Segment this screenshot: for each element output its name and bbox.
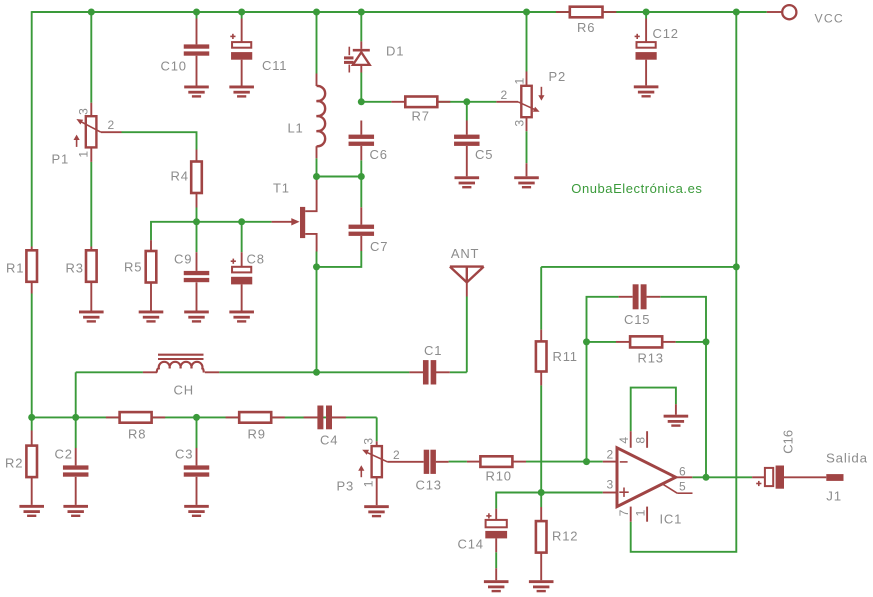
resistor R8	[106, 416, 120, 418]
inductor CH with core	[143, 371, 157, 373]
wire right rail	[631, 12, 737, 552]
svg-text:R8: R8	[128, 426, 146, 441]
capacitor C4	[285, 416, 304, 418]
svg-text:1: 1	[77, 151, 91, 158]
svg-text:ANT: ANT	[451, 246, 479, 261]
svg-text:5: 5	[679, 480, 686, 494]
wire R1 bottom to bus	[31, 294, 33, 418]
svg-text:R1: R1	[6, 261, 24, 276]
wire R4 bottom to gate row to C9	[196, 208, 198, 253]
node rail-C10	[193, 9, 200, 16]
svg-text:R13: R13	[638, 351, 664, 366]
capacitor C14 (polarized)	[495, 509, 497, 520]
wire CH left corner drop	[75, 372, 77, 417]
capacitor C6	[360, 121, 362, 135]
wire P1 pin1 to R3	[90, 162, 92, 247]
IC1 pin 7	[630, 507, 632, 522]
ground R3	[79, 311, 104, 314]
resistor R13	[616, 341, 630, 343]
svg-text:1: 1	[513, 78, 527, 85]
wire P1 pin2 to R4	[122, 132, 197, 149]
resistor R7	[391, 101, 405, 103]
svg-text:3: 3	[513, 119, 527, 126]
wire C6 bottom	[360, 160, 362, 176]
svg-text:P2: P2	[549, 69, 567, 84]
op-amp IC1	[617, 448, 676, 507]
P1 wiper	[78, 120, 101, 132]
P3 wiper	[364, 451, 387, 462]
resistor R11	[540, 330, 542, 342]
svg-text:J1: J1	[826, 488, 842, 503]
wire feedback row to right rail	[541, 266, 736, 268]
inductor L1	[316, 74, 318, 87]
svg-text:CH: CH	[174, 382, 194, 397]
node C15-R13 left	[583, 338, 590, 345]
ground C9	[184, 311, 209, 314]
svg-text:3: 3	[76, 108, 90, 115]
wire C15/R13 left leg down to pin2 node	[586, 342, 588, 462]
ground C14	[484, 580, 509, 583]
node rail-P1	[88, 9, 95, 16]
wire output to C16	[692, 476, 752, 478]
ground P3	[364, 505, 389, 508]
wire bottom bus	[32, 416, 377, 418]
wire C12 stub	[645, 12, 647, 19]
wire pin3 node to C14	[496, 493, 541, 509]
capacitor C3	[196, 448, 198, 465]
resistor R3	[90, 247, 92, 251]
svg-text:R7: R7	[412, 109, 430, 124]
node rail-right	[733, 9, 740, 16]
wire P1 pin3 drop	[90, 12, 92, 103]
varicap diode D1	[360, 41, 362, 49]
node R7-C5-P2	[463, 98, 470, 105]
node R1-R2-bus	[28, 414, 35, 421]
P2 wiper	[496, 101, 518, 103]
wire P2 pin1 drop	[526, 12, 528, 72]
wire node to R7	[361, 101, 391, 103]
node D1-R7-C6	[358, 98, 365, 105]
ground C3	[184, 505, 209, 508]
svg-text:R3: R3	[66, 261, 84, 276]
svg-text:C5: C5	[475, 147, 493, 162]
svg-text:VCC: VCC	[815, 12, 844, 26]
svg-text:R4: R4	[171, 169, 189, 184]
wire L1 bottom	[316, 158, 318, 176]
svg-text:R9: R9	[248, 426, 266, 441]
svg-text:C4: C4	[320, 433, 338, 448]
svg-text:R12: R12	[552, 529, 578, 544]
svg-text:C7: C7	[370, 239, 388, 254]
wire R13 row right	[676, 341, 706, 343]
svg-text:2: 2	[108, 118, 115, 132]
svg-text:3: 3	[607, 477, 614, 491]
wire C5 stub	[466, 102, 468, 121]
resistor R4	[196, 150, 198, 162]
capacitor C13	[424, 450, 430, 474]
resistor R1	[31, 247, 33, 251]
node emitter-CH-C1	[313, 369, 320, 376]
T1 gate lead	[272, 221, 292, 223]
IC1 pin 2 (inverting)	[603, 461, 617, 463]
node T1-C7	[313, 263, 320, 270]
svg-text:C1: C1	[424, 343, 442, 358]
wire C13 to R10	[449, 461, 467, 463]
wire L1-C6 row	[317, 176, 362, 178]
P1 adjust arrow	[76, 140, 78, 147]
wire R7 to C5 node	[437, 101, 467, 103]
node C6-C7	[358, 173, 365, 180]
svg-text:1: 1	[634, 509, 648, 516]
ground C5	[455, 176, 480, 179]
svg-text:C6: C6	[370, 147, 388, 162]
ground C2	[63, 505, 88, 508]
capacitor C10	[196, 19, 198, 45]
terminal VCC	[767, 11, 782, 13]
P3 pin1 to ground	[376, 477, 378, 505]
wire VCC top rail	[32, 11, 767, 13]
wire left rail down to R1	[31, 11, 33, 246]
svg-text:D1: D1	[386, 44, 404, 59]
T1 drain lead	[305, 177, 316, 212]
resistor R5	[150, 240, 152, 251]
svg-text:C10: C10	[161, 59, 187, 74]
svg-text:R11: R11	[553, 349, 578, 364]
IC1 pin 3 (non-inverting)	[603, 492, 617, 494]
svg-text:P1: P1	[52, 152, 70, 167]
svg-text:R6: R6	[577, 20, 595, 35]
capacitor C11 (polarized)	[241, 19, 243, 43]
capacitor C8 (polarized)	[241, 252, 243, 267]
potentiometer P1	[90, 103, 92, 117]
node rail-feedback	[733, 263, 740, 270]
svg-text:R10: R10	[486, 469, 512, 484]
wire D1 top drop	[360, 12, 362, 41]
P3 adjust arrow	[360, 471, 362, 478]
D1 capacitor mark	[348, 47, 350, 56]
resistor R2	[31, 431, 33, 446]
wire D1 anode to node	[360, 73, 362, 102]
wire R13 right leg to output	[705, 342, 707, 477]
capacitor C16 (polarized, series)	[752, 476, 765, 478]
capacitor C15	[619, 296, 633, 298]
node output	[703, 474, 710, 481]
wire C14 mid segment	[495, 552, 497, 568]
node C3-bus	[193, 414, 200, 421]
svg-text:4: 4	[617, 437, 631, 444]
capacitor C7	[360, 207, 362, 224]
IC1 pin 1	[646, 507, 648, 522]
wire R11 top drop	[540, 267, 542, 330]
svg-text:OnubaElectrónica.es: OnubaElectrónica.es	[571, 181, 702, 196]
node C15-R13 right	[703, 338, 710, 345]
svg-text:2: 2	[607, 447, 614, 461]
svg-text:R2: R2	[5, 456, 23, 471]
node R4-C9	[193, 218, 200, 225]
wire R12 top	[540, 493, 542, 508]
IC1 pin 6 output	[676, 476, 693, 478]
svg-text:2: 2	[501, 88, 508, 102]
wire bus corner to P3	[376, 417, 378, 441]
wire pin3 row	[541, 492, 603, 494]
capacitor C1	[409, 371, 423, 373]
resistor R9	[226, 416, 240, 418]
wire C7 top	[360, 177, 362, 208]
ground IC1 pin4	[675, 404, 677, 415]
wire C15 loop	[587, 297, 619, 342]
node L1-T1	[313, 173, 320, 180]
resistor R6	[556, 11, 570, 13]
P2 adjust arrow	[540, 87, 542, 96]
connector J1	[826, 474, 843, 481]
ground C8	[229, 311, 254, 314]
ground C10	[184, 86, 209, 89]
potentiometer P2	[526, 72, 528, 86]
wire L1 top drop	[316, 12, 318, 74]
ground R2	[19, 505, 44, 508]
resistor R12	[540, 507, 542, 521]
wire R10 to op-amp pin2	[526, 461, 603, 463]
node pin2	[583, 458, 590, 465]
node rail-C12	[643, 9, 650, 16]
wire ANT drop	[466, 297, 468, 373]
svg-text:C14: C14	[458, 537, 484, 552]
node rail-L1	[313, 9, 320, 16]
wire T1 source to emitter node and down	[316, 252, 318, 267]
ground C12	[634, 85, 659, 88]
svg-text:C12: C12	[653, 26, 679, 41]
wire P2 pin3 to ground	[526, 131, 528, 163]
svg-text:C3: C3	[175, 447, 193, 462]
node gate-C8	[238, 218, 245, 225]
svg-text:6: 6	[679, 465, 686, 479]
svg-text:L1: L1	[288, 120, 304, 135]
node rail-P2	[523, 9, 530, 16]
wire C10 stub	[196, 12, 198, 19]
node C2-CH-bus	[72, 414, 79, 421]
wire R13 row left	[587, 341, 617, 343]
wire CH to C1 row	[76, 371, 143, 373]
T1 source lead	[305, 234, 316, 252]
wire C7 bottom to emitter node	[317, 251, 362, 267]
svg-text:3: 3	[362, 438, 376, 445]
ground C11	[229, 86, 254, 89]
svg-text:P3: P3	[337, 479, 355, 494]
svg-text:C15: C15	[624, 312, 650, 327]
svg-text:Salida: Salida	[826, 450, 868, 465]
node rail-D1	[358, 9, 365, 16]
node pin3	[538, 489, 545, 496]
svg-text:C9: C9	[174, 251, 192, 266]
svg-text:C2: C2	[55, 447, 73, 462]
capacitor C9	[196, 252, 198, 271]
ground R12	[529, 580, 554, 583]
svg-text:1: 1	[361, 480, 375, 487]
svg-text:C13: C13	[416, 478, 442, 493]
svg-text:C16: C16	[780, 430, 795, 454]
svg-text:2: 2	[393, 448, 400, 462]
svg-text:C8: C8	[247, 251, 265, 266]
svg-text:8: 8	[634, 437, 648, 444]
wire R2 top stub	[31, 417, 33, 430]
svg-text:C11: C11	[262, 58, 287, 73]
wire C5 node to P2 pin2	[467, 101, 497, 103]
wire C8 drop from gate row	[241, 222, 243, 252]
svg-text:T1: T1	[273, 180, 290, 195]
capacitor C12 (polarized)	[645, 19, 647, 43]
ground R5	[139, 311, 164, 314]
IC1 pin 5	[663, 484, 677, 493]
wire op-amp pin4 to ground	[631, 388, 676, 432]
wire C11 stub	[241, 12, 243, 19]
antenna ANT	[450, 265, 484, 267]
wire T1 gate row	[151, 222, 272, 240]
wire R11 bottom to pin3 node	[540, 385, 542, 492]
svg-text:R5: R5	[124, 260, 142, 275]
capacitor C5	[466, 121, 468, 135]
ground P2	[526, 163, 528, 176]
resistor R10	[467, 461, 481, 463]
svg-text:7: 7	[617, 509, 631, 516]
transistor T1 (JFET)	[300, 207, 305, 238]
capacitor C2	[75, 448, 77, 465]
wire C2 stub	[75, 417, 77, 448]
svg-text:IC1: IC1	[660, 512, 683, 527]
IC1 pin 4	[630, 431, 632, 448]
potentiometer P3	[376, 441, 378, 446]
node rail-C11	[238, 9, 245, 16]
IC1 pin 8	[646, 431, 648, 448]
wire C3 stub	[196, 417, 198, 448]
